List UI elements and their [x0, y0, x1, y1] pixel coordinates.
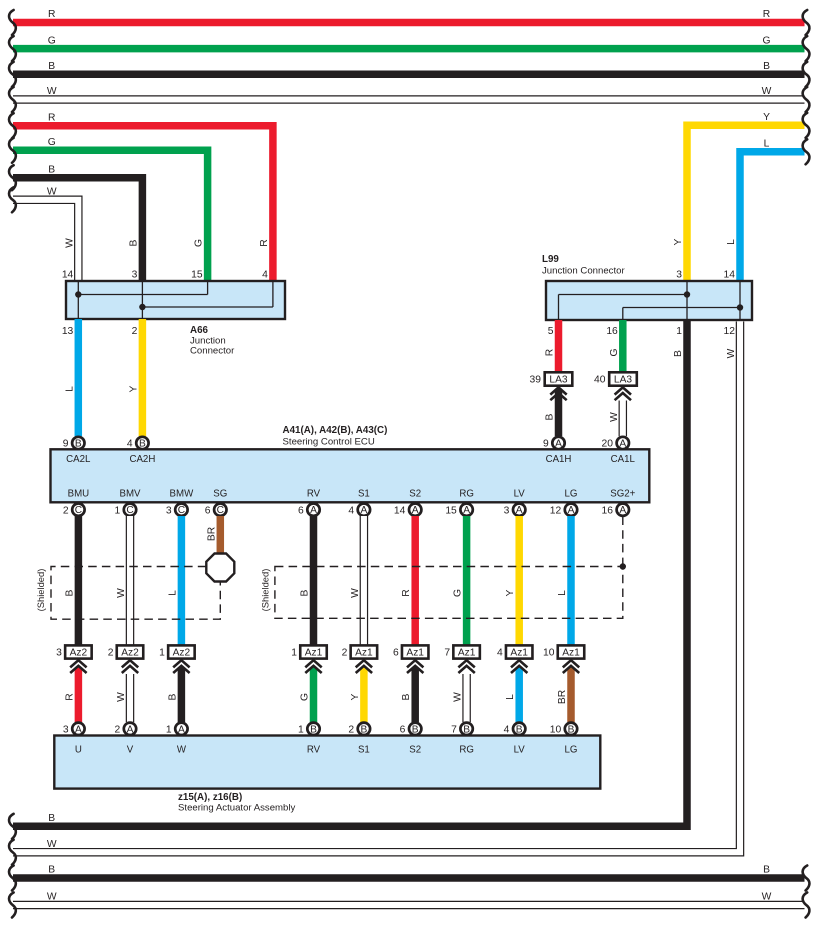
wire W (bottom bus)	[9, 892, 809, 918]
wire W from Az2 to actuator pin 2(A)	[116, 674, 130, 722]
svg-text:A41(A), A42(B), A43(C): A41(A), A42(B), A43(C)	[283, 425, 388, 436]
wire Y from A66 pin 2 to ECU CA2H	[128, 319, 142, 436]
svg-text:B: B	[167, 693, 178, 700]
wire W from L99 pin 12 to bottom left	[9, 322, 740, 865]
svg-text:A: A	[178, 724, 185, 735]
svg-text:LG: LG	[565, 745, 578, 756]
actuator pin 4(B)	[504, 723, 526, 736]
svg-text:A: A	[463, 505, 470, 516]
svg-text:Steering Control ECU: Steering Control ECU	[283, 436, 375, 447]
svg-text:R: R	[64, 693, 75, 700]
wire G from Az1 to actuator pin 1(B)	[300, 668, 314, 723]
svg-text:L99: L99	[542, 254, 559, 265]
actuator pin 1(A)	[166, 723, 188, 736]
actuator terminal S1	[358, 745, 370, 756]
wire B from L99 pin 1 to bottom left	[9, 320, 687, 839]
svg-text:CA1H: CA1H	[546, 454, 572, 465]
wire Y to L99 pin 3	[673, 112, 809, 282]
connector LA3 pin 39	[530, 372, 573, 385]
svg-text:RV: RV	[307, 488, 321, 499]
actuator pin 2(A)	[114, 723, 136, 736]
svg-text:3: 3	[676, 270, 682, 281]
L99 internal bus 3-5-1	[559, 281, 691, 320]
actuator terminal W	[177, 745, 187, 756]
ECU pin 16(A) SG2+	[602, 488, 636, 516]
svg-text:Az2: Az2	[70, 647, 88, 658]
svg-text:B: B	[463, 724, 470, 735]
ECU pin 14(A) S2	[394, 488, 421, 516]
svg-text:R: R	[48, 9, 55, 20]
svg-text:3: 3	[166, 505, 172, 516]
svg-text:14: 14	[394, 505, 406, 516]
svg-text:BR: BR	[557, 690, 568, 704]
svg-text:S1: S1	[358, 745, 370, 756]
ECU pin 4(B) CA2H	[127, 437, 155, 465]
actuator pin 2(B)	[348, 723, 370, 736]
A66 pin 2	[132, 326, 138, 337]
svg-text:B: B	[361, 724, 368, 735]
svg-text:S2: S2	[409, 488, 421, 499]
svg-text:1: 1	[114, 505, 120, 516]
svg-text:13: 13	[62, 326, 74, 337]
svg-text:6: 6	[393, 648, 399, 659]
svg-text:12: 12	[724, 326, 736, 337]
wire W from LA3 40 to ECU CA1L	[609, 401, 623, 437]
junction connector A66	[66, 281, 285, 357]
wire L from A66 pin 13 to ECU CA2L	[64, 319, 78, 436]
svg-text:W: W	[762, 892, 772, 903]
svg-text:10: 10	[543, 648, 555, 659]
svg-text:9: 9	[543, 439, 549, 450]
svg-text:B: B	[300, 589, 311, 596]
svg-text:W: W	[47, 892, 57, 903]
svg-text:BMV: BMV	[120, 488, 142, 499]
actuator pin 7(B)	[451, 723, 473, 736]
A66 pin 13	[62, 326, 74, 337]
wire W from ECU S1	[350, 516, 364, 645]
actuator terminal RG	[459, 745, 474, 756]
shielded box 2	[260, 567, 623, 619]
shield arrow below Az1 pin 4	[511, 660, 527, 673]
ECU pin 1(C) BMV	[114, 488, 141, 516]
ECU pin 15(A) RG	[445, 488, 474, 516]
wire G (top bus)	[9, 35, 809, 61]
svg-text:15: 15	[191, 270, 203, 281]
svg-text:BR: BR	[206, 527, 217, 541]
svg-text:B: B	[48, 61, 55, 72]
svg-text:3: 3	[56, 648, 62, 659]
svg-text:5: 5	[548, 326, 554, 337]
connector Az1 pin 10	[543, 645, 584, 658]
actuator terminal S2	[409, 745, 421, 756]
svg-text:W: W	[762, 86, 772, 97]
svg-text:L: L	[64, 386, 75, 392]
ECU pin 3(A) LV	[504, 488, 526, 516]
shield junction dot	[620, 563, 626, 569]
svg-text:V: V	[127, 745, 134, 756]
svg-text:Az1: Az1	[510, 647, 528, 658]
svg-text:W: W	[116, 692, 127, 702]
wire Y from ECU LV	[505, 516, 519, 645]
svg-text:SG: SG	[213, 488, 227, 499]
shield arrow below Az1 pin 7	[458, 660, 474, 673]
svg-text:G: G	[48, 137, 56, 148]
svg-text:BMU: BMU	[68, 488, 90, 499]
actuator terminal LV	[514, 745, 526, 756]
wire G to A66 pin 15	[9, 137, 208, 282]
svg-text:2: 2	[342, 648, 348, 659]
L99 pin 5	[548, 326, 554, 337]
svg-text:W: W	[726, 348, 737, 358]
svg-text:C: C	[75, 505, 82, 516]
shield arrow at LA3 39	[550, 387, 566, 400]
svg-text:A: A	[127, 724, 134, 735]
svg-text:16: 16	[606, 326, 618, 337]
wire B (bottom bus)	[9, 865, 809, 891]
svg-text:39: 39	[530, 375, 542, 386]
svg-text:20: 20	[602, 439, 614, 450]
svg-text:A: A	[619, 505, 626, 516]
svg-text:1: 1	[676, 326, 682, 337]
svg-text:B: B	[48, 865, 55, 876]
svg-text:LV: LV	[514, 488, 526, 499]
svg-text:B: B	[401, 693, 412, 700]
svg-text:4: 4	[497, 648, 503, 659]
svg-text:3: 3	[63, 724, 69, 735]
svg-text:A: A	[555, 439, 562, 450]
svg-text:R: R	[545, 349, 556, 356]
svg-text:6: 6	[400, 724, 406, 735]
ECU pin 9(A) CA1H	[543, 437, 571, 465]
wire B from Az1 to actuator pin 6(B)	[401, 668, 415, 723]
svg-text:B: B	[673, 350, 684, 357]
shield arrow below Az2 pin 2	[122, 660, 138, 673]
A66 pin 14	[62, 270, 74, 281]
svg-text:Y: Y	[763, 112, 770, 123]
wire B from Az2 to actuator pin 1(A)	[167, 668, 181, 723]
svg-text:(Shielded): (Shielded)	[35, 569, 46, 612]
svg-text:B: B	[310, 724, 317, 735]
actuator pin 6(B)	[400, 723, 422, 736]
svg-text:W: W	[177, 745, 187, 756]
svg-text:14: 14	[724, 270, 736, 281]
svg-text:16: 16	[602, 505, 614, 516]
wire B (top bus)	[9, 61, 809, 87]
ECU pin 3(C) BMW	[166, 488, 194, 516]
shield arrow below Az1 pin 1	[305, 660, 321, 673]
svg-text:R: R	[401, 589, 412, 596]
wire R from Az2 to actuator pin 3(A)	[64, 668, 78, 723]
svg-text:B: B	[763, 61, 770, 72]
svg-text:LG: LG	[565, 488, 578, 499]
wire G from ECU RG	[453, 516, 467, 645]
svg-text:6: 6	[298, 505, 304, 516]
svg-text:4: 4	[127, 439, 133, 450]
svg-text:B: B	[545, 413, 556, 420]
svg-text:7: 7	[444, 648, 450, 659]
svg-text:10: 10	[550, 724, 562, 735]
svg-text:B: B	[128, 239, 139, 246]
actuator pin 1(B)	[298, 723, 320, 736]
steering actuator assembly z15/z16	[54, 736, 600, 814]
svg-text:1: 1	[159, 648, 165, 659]
steering control ECU A41/A42/A43	[51, 425, 650, 502]
svg-text:A66: A66	[190, 325, 209, 336]
svg-text:L: L	[764, 139, 770, 150]
shield arrow below Az1 pin 10	[563, 660, 579, 673]
svg-text:4: 4	[262, 270, 268, 281]
A66 internal bus 14-15-13	[75, 281, 208, 319]
svg-text:1: 1	[166, 724, 172, 735]
connector Az1 pin 4	[497, 645, 532, 658]
wire W (top bus)	[9, 86, 809, 112]
actuator pin 10(B)	[550, 723, 577, 736]
svg-text:W: W	[64, 238, 75, 248]
L99 internal bus 14-16-12	[623, 281, 743, 320]
svg-text:RG: RG	[459, 745, 474, 756]
svg-text:B: B	[568, 724, 575, 735]
wire L from ECU BMW	[167, 516, 181, 645]
wire Y from Az1 to actuator pin 2(B)	[350, 668, 364, 723]
connector Az1 pin 1	[291, 645, 326, 658]
svg-text:W: W	[453, 692, 464, 702]
svg-text:S1: S1	[358, 488, 370, 499]
svg-text:W: W	[47, 86, 57, 97]
svg-text:G: G	[609, 348, 620, 356]
shield arrow below Az1 pin 2	[356, 660, 372, 673]
wire R (top bus)	[9, 9, 809, 35]
shielded box 1	[35, 567, 220, 620]
wire R to A66 pin 4	[9, 112, 273, 282]
svg-text:Az1: Az1	[305, 647, 323, 658]
svg-text:3: 3	[504, 505, 510, 516]
svg-text:G: G	[194, 239, 205, 247]
L99 pin 14	[724, 270, 736, 281]
svg-text:A: A	[361, 505, 368, 516]
svg-text:CA2L: CA2L	[66, 454, 91, 465]
wire BR from Az1 to actuator pin 10(B)	[557, 668, 571, 723]
svg-text:U: U	[75, 745, 82, 756]
svg-text:W: W	[47, 839, 57, 850]
svg-text:B: B	[75, 439, 82, 450]
svg-text:C: C	[217, 505, 224, 516]
svg-text:B: B	[64, 589, 75, 596]
svg-text:Az2: Az2	[173, 647, 191, 658]
wire W from ECU BMV	[116, 516, 130, 645]
ECU pin 4(A) S1	[348, 488, 370, 516]
svg-text:S2: S2	[409, 745, 421, 756]
svg-text:B: B	[48, 813, 55, 824]
dashed drain from ECU SG2+	[622, 517, 624, 567]
svg-text:A: A	[619, 439, 626, 450]
svg-text:L: L	[505, 694, 516, 700]
svg-text:B: B	[516, 724, 523, 735]
svg-text:B: B	[48, 164, 55, 175]
svg-text:4: 4	[504, 724, 510, 735]
svg-text:A: A	[310, 505, 317, 516]
svg-text:G: G	[300, 693, 311, 701]
connector Az2 pin 1	[159, 645, 194, 658]
svg-text:R: R	[763, 9, 770, 20]
connector Az1 pin 2	[342, 645, 377, 658]
shield arrow below Az2 pin 3	[70, 660, 86, 673]
wire W to A66 pin 14	[9, 187, 78, 283]
ECU pin 2(C) BMU	[63, 488, 89, 516]
ECU pin 9(B) CA2L	[63, 437, 91, 465]
A66 pin 4	[262, 270, 268, 281]
svg-text:LV: LV	[514, 745, 526, 756]
svg-text:2: 2	[132, 326, 138, 337]
L99 pin 1	[676, 326, 682, 337]
svg-text:CA2H: CA2H	[129, 454, 155, 465]
L99 pin 3	[676, 270, 682, 281]
connector LA3 pin 40	[594, 372, 637, 385]
svg-text:C: C	[178, 505, 185, 516]
svg-text:Y: Y	[673, 238, 684, 245]
svg-text:Az1: Az1	[406, 647, 424, 658]
ECU pin 12(A) LG	[550, 488, 578, 516]
svg-text:R: R	[259, 239, 270, 246]
ECU pin 20(A) CA1L	[602, 437, 636, 465]
connector Az2 pin 2	[108, 645, 143, 658]
svg-text:CA1L: CA1L	[611, 454, 636, 465]
wire G from L99 pin 16 to LA3 40	[609, 320, 623, 373]
A66 pin 3	[132, 270, 138, 281]
svg-text:B: B	[412, 724, 419, 735]
svg-text:BMW: BMW	[170, 488, 195, 499]
svg-text:4: 4	[348, 505, 354, 516]
svg-text:1: 1	[291, 648, 297, 659]
svg-text:3: 3	[132, 270, 138, 281]
svg-text:W: W	[609, 412, 620, 422]
svg-text:G: G	[453, 589, 464, 597]
wire L to L99 pin 14	[726, 139, 809, 283]
connector Az1 pin 7	[444, 645, 479, 658]
svg-text:z15(A), z16(B): z15(A), z16(B)	[178, 792, 242, 803]
svg-text:(Shielded): (Shielded)	[260, 569, 271, 612]
svg-text:2: 2	[114, 724, 120, 735]
actuator terminal RV	[307, 745, 321, 756]
svg-text:Y: Y	[128, 385, 139, 392]
actuator terminal V	[127, 745, 134, 756]
svg-text:7: 7	[451, 724, 457, 735]
shield arrow at LA3 40	[615, 387, 631, 400]
svg-text:B: B	[139, 439, 146, 450]
svg-text:LA3: LA3	[614, 374, 632, 385]
A66 pin 15	[191, 270, 203, 281]
svg-text:B: B	[763, 865, 770, 876]
wire B from LA3 39 to ECU CA1H	[545, 389, 559, 436]
svg-text:A: A	[412, 505, 419, 516]
svg-text:Az2: Az2	[121, 647, 139, 658]
wire B from ECU RV	[300, 516, 314, 645]
svg-text:40: 40	[594, 375, 606, 386]
svg-text:Y: Y	[505, 589, 516, 596]
ECU pin 6(C) SG	[205, 488, 228, 516]
svg-text:W: W	[116, 588, 127, 598]
wire BR from ECU SG to shield	[206, 516, 220, 555]
svg-text:A: A	[568, 505, 575, 516]
actuator pin 3(A)	[63, 723, 85, 736]
svg-text:Az1: Az1	[458, 647, 476, 658]
svg-text:9: 9	[63, 439, 69, 450]
wire R from ECU S2	[401, 516, 415, 645]
svg-text:RV: RV	[307, 745, 321, 756]
svg-text:A: A	[75, 724, 82, 735]
svg-text:L: L	[557, 590, 568, 596]
L99 pin 16	[606, 326, 618, 337]
svg-text:Az1: Az1	[562, 647, 580, 658]
wire R from L99 pin 5 to LA3 39	[545, 320, 559, 373]
wire B to A66 pin 3	[9, 164, 142, 282]
connector Az2 pin 3	[56, 645, 91, 658]
svg-text:6: 6	[205, 505, 211, 516]
connector Az1 pin 6	[393, 645, 428, 658]
svg-text:G: G	[762, 35, 770, 46]
svg-text:2: 2	[348, 724, 354, 735]
svg-text:2: 2	[63, 505, 69, 516]
actuator terminal U	[75, 745, 82, 756]
svg-text:12: 12	[550, 505, 562, 516]
svg-text:G: G	[48, 35, 56, 46]
shield octagon	[206, 554, 234, 582]
svg-text:R: R	[48, 112, 55, 123]
L99 pin 12	[724, 326, 736, 337]
actuator terminal LG	[565, 745, 578, 756]
svg-text:C: C	[126, 505, 133, 516]
svg-text:Az1: Az1	[355, 647, 373, 658]
junction connector L99	[542, 254, 752, 320]
svg-text:14: 14	[62, 270, 74, 281]
svg-text:Connector: Connector	[190, 346, 235, 357]
svg-text:Y: Y	[350, 693, 361, 700]
svg-text:L: L	[726, 239, 737, 245]
svg-text:1: 1	[298, 724, 304, 735]
svg-text:RG: RG	[459, 488, 474, 499]
wire L from Az1 to actuator pin 4(B)	[505, 668, 519, 723]
svg-text:Junction Connector: Junction Connector	[542, 266, 625, 277]
svg-text:W: W	[47, 187, 57, 198]
shield arrow below Az1 pin 6	[407, 660, 423, 673]
svg-text:A: A	[516, 505, 523, 516]
svg-text:LA3: LA3	[549, 374, 567, 385]
shield arrow below Az2 pin 1	[173, 660, 189, 673]
svg-text:15: 15	[445, 505, 457, 516]
ECU pin 6(A) RV	[298, 488, 321, 516]
wire B from ECU BMU	[64, 516, 78, 645]
svg-text:2: 2	[108, 648, 114, 659]
svg-text:W: W	[350, 588, 361, 598]
A66 internal bus 3-4-2	[139, 281, 273, 319]
svg-text:L: L	[167, 590, 178, 596]
svg-text:SG2+: SG2+	[610, 488, 635, 499]
wire W from Az1 to actuator pin 7(B)	[453, 674, 467, 722]
svg-text:Steering Actuator Assembly: Steering Actuator Assembly	[178, 802, 296, 813]
wire L from ECU LG	[557, 516, 571, 645]
